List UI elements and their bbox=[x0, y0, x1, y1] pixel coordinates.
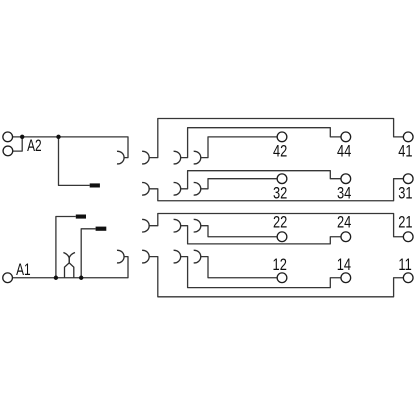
wire contact 14 bbox=[181, 257, 341, 288]
socket contact row2 col3 bbox=[194, 219, 201, 232]
socket contact row2 col2 bbox=[174, 219, 181, 232]
svg-text:31: 31 bbox=[398, 185, 412, 203]
terminal A2 upper bbox=[3, 132, 13, 142]
wire A1 coil branch 2 bbox=[81, 229, 95, 278]
socket contact row2 col1 bbox=[142, 219, 149, 232]
svg-text:14: 14 bbox=[337, 257, 351, 275]
coil pin plug A1 lower bbox=[96, 227, 107, 231]
socket contact row4 col1 bbox=[142, 151, 149, 164]
socket contact row4 col0 bbox=[117, 151, 124, 164]
wire contact 12 bbox=[201, 257, 277, 278]
socket contact row1 col3 bbox=[194, 250, 201, 263]
socket contact row1 col2 bbox=[174, 250, 181, 263]
svg-text:22: 22 bbox=[273, 214, 287, 232]
socket contact row3 col2 bbox=[174, 183, 181, 196]
wire contact 32 bbox=[201, 179, 277, 189]
wire contact 44 bbox=[181, 128, 341, 158]
svg-text:34: 34 bbox=[337, 185, 351, 203]
wire contact 24 bbox=[181, 226, 341, 244]
socket contact row3 col3 bbox=[194, 183, 201, 196]
terminal A1 bbox=[3, 273, 13, 283]
wire A2 coil branch bbox=[59, 137, 90, 186]
terminal 31 bbox=[403, 174, 413, 184]
svg-text:A2: A2 bbox=[27, 137, 42, 155]
wire A2 lower terminal link bbox=[13, 137, 23, 151]
terminal 42 bbox=[277, 132, 287, 142]
junction A2 coil branch bbox=[56, 135, 60, 139]
socket contact row3 col1 bbox=[142, 183, 149, 196]
terminal 21 bbox=[403, 232, 413, 242]
junction A1 coil branch 2 bbox=[79, 276, 83, 280]
terminal 41 bbox=[403, 132, 413, 142]
terminal 24 bbox=[341, 232, 351, 242]
terminal 22 bbox=[277, 232, 287, 242]
wire contact 21 bbox=[149, 214, 403, 237]
svg-text:12: 12 bbox=[273, 257, 287, 275]
wire contact 22 bbox=[201, 226, 277, 237]
junction A2 terminals bbox=[20, 135, 24, 139]
coil pin plug A1 upper bbox=[76, 215, 86, 219]
svg-text:24: 24 bbox=[337, 214, 351, 232]
coil crossing symbol bbox=[63, 253, 75, 278]
wire contact 11 bbox=[149, 257, 403, 297]
terminal A2 lower bbox=[3, 146, 13, 156]
wire contact 42 bbox=[201, 137, 277, 158]
svg-text:A1: A1 bbox=[16, 261, 31, 279]
socket contact row1 col0 bbox=[117, 250, 124, 263]
terminal 44 bbox=[341, 132, 351, 142]
wire contact 31 bbox=[149, 179, 403, 201]
terminal 12 bbox=[277, 273, 287, 283]
socket contact row1 col1 bbox=[142, 250, 149, 263]
socket contact row4 col2 bbox=[174, 151, 181, 164]
coil pin plug A2 bbox=[90, 183, 100, 187]
svg-text:11: 11 bbox=[398, 257, 411, 275]
terminal 32 bbox=[277, 174, 287, 184]
wire contact 41 bbox=[149, 119, 403, 158]
svg-text:21: 21 bbox=[398, 214, 412, 232]
svg-text:41: 41 bbox=[398, 143, 412, 161]
wire A1 main bbox=[12, 257, 128, 278]
svg-text:42: 42 bbox=[273, 143, 287, 161]
svg-text:44: 44 bbox=[337, 143, 351, 161]
terminal 11 bbox=[403, 273, 413, 283]
junction A1 coil branch 1 bbox=[54, 276, 58, 280]
wire contact 34 bbox=[181, 171, 341, 189]
socket contact row4 col3 bbox=[194, 151, 201, 164]
terminal 14 bbox=[341, 273, 351, 283]
terminal 34 bbox=[341, 174, 351, 184]
wire A1 coil branch 1 bbox=[56, 217, 76, 278]
wire A2 main bbox=[13, 137, 129, 158]
svg-text:32: 32 bbox=[273, 185, 287, 203]
